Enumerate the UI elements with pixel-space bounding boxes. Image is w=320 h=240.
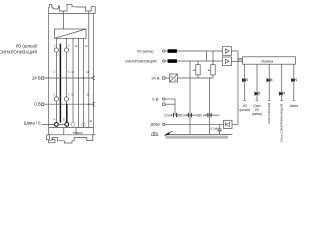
dark terminal circle row3 left xyxy=(55,123,59,127)
resistor R2 riser xyxy=(212,51,214,65)
wire v3 drop xyxy=(209,78,211,134)
LED line 5 xyxy=(292,64,295,100)
svg-text:5: 5 xyxy=(68,45,70,48)
terminal column 1 xyxy=(55,38,57,122)
svg-text:1к: 1к xyxy=(207,68,211,72)
terminal square 24V xyxy=(163,77,165,79)
resistor R1 xyxy=(196,65,200,75)
svg-text:2: 2 xyxy=(54,71,56,74)
wire bus row module xyxy=(42,123,65,125)
wire Dvx row xyxy=(165,123,224,125)
svg-text:СИНХРОНИЗАЦИЯ: СИНХРОНИЗАЦИЯ xyxy=(0,50,37,55)
terminal square 0V module xyxy=(41,103,44,105)
capacitor C3 plates xyxy=(208,113,211,117)
contact hook 0V xyxy=(93,102,95,106)
LED D5 xyxy=(292,78,298,82)
svg-text:11: 11 xyxy=(71,94,74,97)
foot inner clip xyxy=(50,135,52,140)
terminal circle row2 pin3 xyxy=(54,97,58,101)
terminal circle row2 pin7 xyxy=(64,97,68,101)
junction dot rowB xyxy=(66,103,68,105)
wire link w1-w2 xyxy=(206,51,208,61)
svg-text:(шлюз): (шлюз) xyxy=(252,112,262,116)
svg-text:Шина / 0: Шина / 0 xyxy=(24,121,41,126)
module top profile xyxy=(49,4,95,13)
module foot outline xyxy=(47,135,93,143)
light circle row3 a xyxy=(71,123,75,127)
junction dot rowB right xyxy=(88,103,90,105)
svg-text:6: 6 xyxy=(68,71,70,74)
arrow data contact icon xyxy=(166,131,173,134)
logic box U5 xyxy=(243,57,296,64)
LED line 4 xyxy=(280,64,283,100)
ramp diagonal xyxy=(55,29,87,38)
LED D3 xyxy=(267,78,273,82)
wire I/O xyxy=(165,50,223,52)
module inner case line right xyxy=(88,11,90,128)
svg-text:4,7 нФ: 4,7 нФ xyxy=(210,127,218,131)
terminal column 4 xyxy=(78,38,80,127)
svg-text:13: 13 xyxy=(75,45,78,48)
latch slot ticks xyxy=(64,128,76,135)
choke filter SYNC xyxy=(168,60,177,63)
junction dot rowA right xyxy=(83,77,85,79)
terminal circle row1 pin1 xyxy=(54,48,58,52)
wire 0V upper xyxy=(165,98,175,100)
capacitor C1 plates xyxy=(173,113,176,117)
svg-text:Шина: Шина xyxy=(290,104,298,108)
LED D2 xyxy=(255,92,261,96)
svg-text:Дбвх: Дбвх xyxy=(151,122,161,127)
terminal column 3 xyxy=(72,38,74,122)
LED D4 xyxy=(279,92,285,96)
label C2 value xyxy=(177,113,188,118)
svg-text:4: 4 xyxy=(54,118,56,121)
terminal circle 0V xyxy=(163,98,165,100)
terminal column 2 xyxy=(66,38,68,104)
function box with ramp xyxy=(55,29,87,38)
dc-dc converter U1 xyxy=(170,74,178,82)
wire cap row xyxy=(175,114,220,116)
ground rail bar xyxy=(166,136,229,139)
module body top edge xyxy=(49,13,95,15)
svg-text:СИНХРОНИЗАЦИЯ: СИНХРОНИЗАЦИЯ xyxy=(125,59,157,64)
svg-text:СИНХРОНИЗАЦИЯ: СИНХРОНИЗАЦИЯ xyxy=(267,103,271,124)
svg-text:I/O (шлюз)/: I/O (шлюз)/ xyxy=(16,44,38,49)
module inner case line left xyxy=(63,11,65,29)
module right edge xyxy=(92,14,94,135)
funnel contact icon xyxy=(151,132,158,135)
svg-text:1: 1 xyxy=(54,45,56,48)
dark terminal circle row3 right xyxy=(65,123,69,127)
ground rail thin line xyxy=(168,133,232,135)
terminal circle row1 pin5 xyxy=(64,48,68,52)
module foot baseline xyxy=(47,134,96,136)
wire 24V to dcdc xyxy=(165,77,170,79)
svg-text:8: 8 xyxy=(63,118,65,121)
LED line 3 xyxy=(268,64,271,100)
svg-text:10: 10 xyxy=(71,71,74,74)
transceiver U4 xyxy=(224,120,233,128)
light circle row3 b xyxy=(82,123,86,127)
capacitor C2 plates xyxy=(188,113,191,117)
terminal square 0V xyxy=(163,103,165,105)
svg-text:(шлюз): (шлюз) xyxy=(239,108,249,112)
svg-text:750600: 750600 xyxy=(72,131,82,135)
wire 0V row module xyxy=(44,103,93,105)
wire riser transceiver xyxy=(232,58,238,124)
svg-text:10 нФ: 10 нФ xyxy=(164,114,173,118)
label C3 value xyxy=(197,113,208,118)
choke filter I/O xyxy=(168,50,177,53)
wire SYNC xyxy=(165,60,223,62)
svg-text:0 В: 0 В xyxy=(34,102,40,107)
svg-text:Синх СИНХРОНИЗАЦИЯ: Синх СИНХРОНИЗАЦИЯ xyxy=(279,104,283,142)
module body bottom line xyxy=(49,127,93,129)
svg-text:Логика: Логика xyxy=(261,59,274,63)
svg-text:0 В: 0 В xyxy=(152,97,159,102)
wire buffer1 out xyxy=(232,51,243,58)
wire buffer2 out xyxy=(232,60,243,62)
power contact bold line B xyxy=(66,104,68,122)
contact hook 24V xyxy=(93,76,95,80)
svg-text:330 нФ: 330 нФ xyxy=(197,114,208,118)
svg-text:I/O (шлюз): I/O (шлюз) xyxy=(137,49,154,54)
svg-text:300 нФ: 300 нФ xyxy=(177,114,188,118)
power contact bold line A xyxy=(59,44,61,123)
schematic terminal circle I/O xyxy=(163,50,165,52)
svg-text:3: 3 xyxy=(54,94,56,97)
wire riser stub to logic xyxy=(238,59,243,61)
pin numbers row1 xyxy=(54,45,93,123)
resistor R1 riser xyxy=(197,61,199,65)
svg-text:1к: 1к xyxy=(192,68,196,72)
capacitor C4 4.7nF line xyxy=(219,124,221,134)
buffer U3 xyxy=(223,57,232,66)
schematic terminal circle SYNC xyxy=(163,60,165,62)
module left edge xyxy=(48,14,50,135)
wire 0V lower xyxy=(165,103,175,105)
buffer U2 xyxy=(223,47,232,56)
svg-text:16: 16 xyxy=(89,120,92,123)
svg-text:24 В: 24 В xyxy=(32,75,41,80)
resistor R2 xyxy=(211,65,215,75)
label C1 value xyxy=(164,113,173,118)
LED line 1 xyxy=(243,64,246,100)
svg-text:14: 14 xyxy=(85,45,88,48)
wire v2 sync drop xyxy=(189,61,191,134)
terminal square 24V module xyxy=(41,77,44,79)
wire 5V rail xyxy=(178,77,214,79)
junction dot rowA xyxy=(60,77,62,79)
resistor R1 stub xyxy=(197,75,199,78)
label C4 value xyxy=(210,126,218,131)
svg-text:7: 7 xyxy=(68,94,70,97)
terminal circle Dvx xyxy=(163,123,165,125)
terminal column 5 xyxy=(83,38,85,127)
LED D1 xyxy=(242,78,248,82)
resistor R2 stub xyxy=(212,75,214,78)
svg-text:24 В: 24 В xyxy=(152,75,160,80)
wire 24V row module xyxy=(44,77,93,79)
node 0V vertical xyxy=(174,99,176,115)
LED line 2 xyxy=(256,64,259,100)
